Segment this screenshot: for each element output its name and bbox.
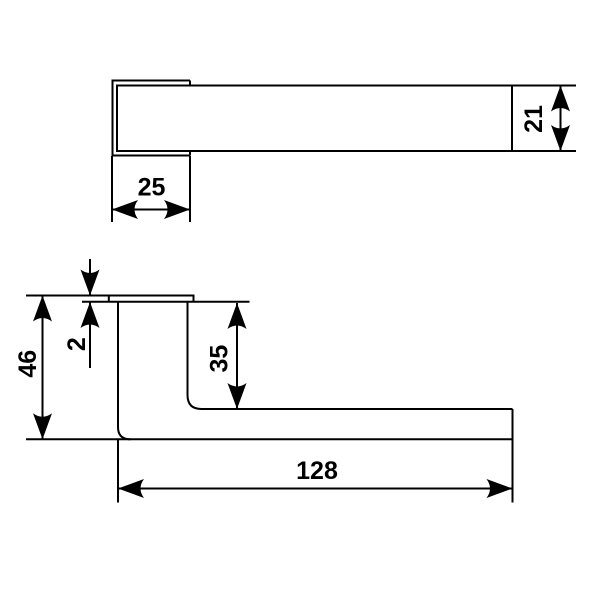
svg-text:25: 25 (138, 174, 166, 202)
svg-text:46: 46 (14, 350, 42, 378)
svg-text:21: 21 (520, 105, 548, 133)
svg-text:128: 128 (296, 457, 338, 485)
svg-text:2: 2 (63, 337, 91, 351)
svg-text:35: 35 (205, 345, 233, 373)
